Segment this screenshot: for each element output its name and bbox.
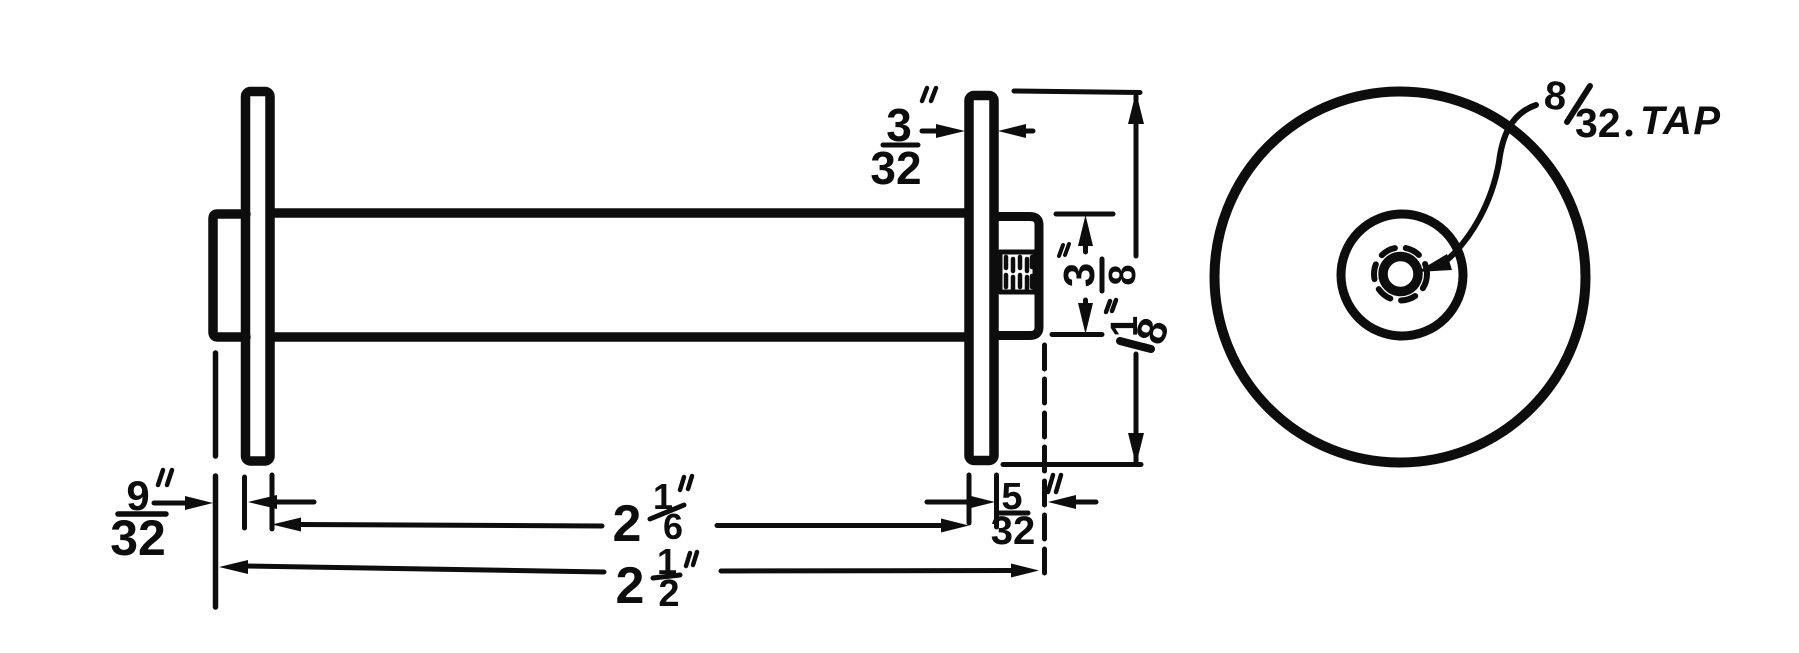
arrowhead 3/32 right (points left at flange right face): [998, 124, 1026, 138]
arrowhead 9/32 (points right at shaft end line): [185, 496, 213, 510]
svg-text:2: 2: [616, 557, 645, 615]
text 3/8 rotated (barrel diameter): [1055, 259, 1144, 291]
dashed thread circle: [1374, 248, 1427, 301]
svg-text:32: 32: [870, 142, 921, 194]
extension tick right flange right face: [994, 475, 999, 527]
right flange: [969, 96, 994, 461]
dim line 2-1/2 left part: [246, 566, 604, 572]
thread hatch dashes: [1006, 257, 1032, 289]
svg-text:3: 3: [1055, 263, 1104, 287]
arrowhead 2-1/2 right (points right): [1011, 564, 1039, 578]
svg-text:32: 32: [110, 510, 166, 566]
arrowhead 1-1/8 bottom (points down): [1128, 433, 1144, 465]
arrowhead 5/32 left (points right): [967, 495, 995, 509]
svg-text:2: 2: [658, 573, 679, 615]
svg-text:8: 8: [1102, 264, 1144, 285]
inner circle (barrel front view): [1341, 214, 1463, 336]
arrowhead left of flange face (points left): [248, 495, 277, 509]
dashed extension line right stub end: [1042, 345, 1047, 582]
tapped hole: [1383, 257, 1418, 292]
dim line 2-1/16 right part: [717, 523, 943, 528]
inch mark 3/8: [1059, 244, 1069, 256]
top extension line for 1-1/8: [1014, 91, 1140, 93]
dim arrow line 3/32 left: [922, 129, 940, 134]
dim arrow line 5/32 right: [1062, 500, 1096, 505]
extension line top for 3/8: [1056, 212, 1113, 217]
svg-text:TAP: TAP: [1640, 99, 1722, 143]
dim arrow line right of 9/32 gap: [275, 500, 314, 505]
inch mark 9/32: [158, 470, 172, 485]
extension tick left flange right face: [270, 475, 275, 529]
inch mark 2-1/16: [680, 476, 692, 490]
svg-text:32: 32: [991, 509, 1036, 553]
arrowhead 3/8 bottom (points down): [1078, 303, 1093, 334]
arrowhead 5/32 right (points left): [1048, 495, 1076, 509]
arrowhead 2-1/16 right (points right): [941, 519, 969, 533]
leader arrow blob at tapped hole: [1417, 254, 1452, 272]
extension tick right flange left face: [967, 475, 972, 523]
arrowhead 3/32 left (points right at flange left face): [936, 124, 965, 138]
bottom extension line for 1-1/8: [1003, 462, 1141, 467]
leader curve to 8/32 TAP: [1446, 105, 1536, 261]
extension line bottom for 3/8: [1052, 332, 1102, 337]
thread hatch outline on right stub: [1000, 252, 1035, 292]
svg-text:2: 2: [613, 495, 642, 553]
inch mark 2-1/2: [686, 552, 697, 566]
left flange: [246, 92, 271, 462]
fraction bar of 1-1/8: [1120, 341, 1151, 349]
dim arrow line 5/32 left: [927, 500, 968, 505]
arrowhead 3/8 top (points up): [1078, 215, 1093, 246]
arrowhead 2-1/16 left (points left): [272, 518, 301, 532]
dim line 2-1/2 right part: [721, 568, 1012, 574]
inch mark 5/32: [1048, 475, 1061, 492]
dim line 2-1/16 left part: [298, 525, 602, 527]
big circle (flange front view): [1215, 92, 1586, 463]
vertical dim line 3/8: [1083, 242, 1088, 308]
extension line shaft left end: [213, 353, 219, 607]
svg-text:32: 32: [1575, 100, 1621, 146]
barrel bottom line: [271, 332, 967, 342]
left shaft stub: [213, 214, 246, 337]
arrowhead 2-1/2 left (points left): [219, 560, 248, 574]
dim arrow line 3/32 right: [1022, 129, 1033, 134]
extension tick left flange left face: [242, 477, 247, 528]
svg-text:8: 8: [1542, 73, 1569, 119]
dim arrow line 9/32: [154, 501, 186, 506]
right shaft stub: [994, 217, 1039, 336]
arrowhead 1-1/8 top (points up): [1128, 92, 1144, 124]
barrel top line: [271, 208, 967, 218]
inch mark 1-1/8: [1106, 300, 1116, 312]
vertical dim line 1-1/8: [1134, 96, 1139, 462]
inch mark 3/32: [922, 88, 936, 101]
